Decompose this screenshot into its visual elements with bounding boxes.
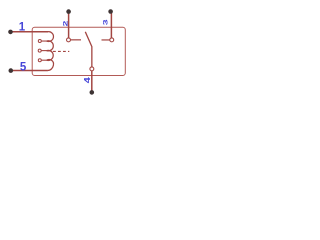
coil junction tail 1 <box>41 40 46 42</box>
coil junction circle 3 <box>38 59 41 62</box>
svg-text:5: 5 <box>20 61 27 73</box>
coil junction tail 3 <box>41 59 46 61</box>
pin 3 wire <box>110 12 112 38</box>
contact circle pin 2 <box>67 38 71 42</box>
pin 4 wire <box>91 71 93 93</box>
pin 4 endpoint dot <box>90 90 95 95</box>
pin 3 endpoint dot <box>108 9 113 14</box>
mechanical linkage (dashed) <box>53 50 69 52</box>
common contact circle (pin 4) <box>90 67 94 71</box>
pin 2 wire <box>68 12 70 38</box>
coil junction circle 2 <box>38 49 41 52</box>
pin 5 endpoint dot <box>9 68 14 73</box>
svg-text:2: 2 <box>61 21 69 27</box>
coil junction circle 1 <box>38 40 41 43</box>
switch blade <box>85 32 92 67</box>
pin 5 wire <box>11 70 48 72</box>
coil L1 loop 1 <box>47 32 54 42</box>
coil L1 loop 2 <box>47 41 54 51</box>
coil junction tail 2 <box>41 50 47 52</box>
svg-text:4: 4 <box>83 76 92 83</box>
contact stub pin 3 <box>102 39 110 41</box>
coil L1 loop 3 <box>47 50 54 60</box>
coil L1 bottom hook <box>47 60 54 71</box>
relay K1 body outline <box>32 27 125 75</box>
pin 2 endpoint dot <box>66 9 71 14</box>
contact stub pin 2 <box>71 39 82 41</box>
pin 1 endpoint dot <box>8 30 13 35</box>
pin 1 wire <box>11 31 49 33</box>
contact circle pin 3 <box>110 38 114 42</box>
svg-text:3: 3 <box>102 19 110 25</box>
svg-text:1: 1 <box>19 22 26 34</box>
